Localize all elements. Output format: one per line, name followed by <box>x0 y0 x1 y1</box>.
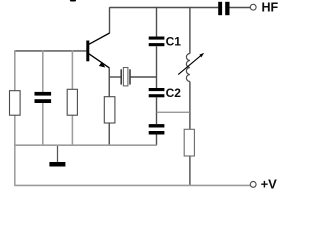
wire +V rail <box>14 184 250 186</box>
wire emitter vertical <box>108 68 110 97</box>
transistor Q1 base bar <box>86 41 89 62</box>
transistor Q1 emitter lead <box>89 54 109 68</box>
wire bypass cap top stub <box>42 51 44 93</box>
crystal X1 left plate <box>120 69 122 84</box>
resistor R2 <box>67 89 77 115</box>
wire R2 top stub <box>71 51 73 90</box>
wire ground stub <box>57 145 59 162</box>
resistor R1 <box>10 91 21 116</box>
wire R4 to +V rail <box>189 156 191 186</box>
wire output cap to HF terminal <box>229 7 250 9</box>
wire R1 top stub <box>14 51 16 91</box>
wire crystal to C-branch <box>131 76 157 78</box>
svg-text:C1: C1 <box>166 34 182 48</box>
wire junction C-branch to inductor branch <box>157 111 190 113</box>
crystal X1 body <box>123 68 128 86</box>
resistor R4 <box>184 129 194 156</box>
wire R3 to bus <box>108 123 110 145</box>
wire R2 bottom stub <box>71 115 73 145</box>
wire base line <box>14 50 86 52</box>
svg-text:HF: HF <box>262 0 279 14</box>
inductor L1 adjust arrow <box>178 54 203 75</box>
transistor Q1 collector lead <box>89 33 110 44</box>
inductor L1 coil <box>186 54 189 82</box>
terminal HF <box>250 4 256 10</box>
capacitor bypass plates <box>35 92 52 96</box>
text remnant at top edge <box>70 0 76 2</box>
wire bias bus <box>14 144 156 146</box>
capacitor C2 plates <box>149 88 165 91</box>
capacitor C1 plates <box>149 37 165 40</box>
wire C2 to C3 <box>156 97 158 124</box>
wire emitter to crystal <box>109 76 120 78</box>
wire R1 bottom to rail <box>14 115 16 185</box>
wire C1 branch top <box>156 7 158 37</box>
wire inductor to R4 <box>189 82 191 130</box>
crystal X1 right plate <box>129 69 131 84</box>
resistor R3 <box>104 97 115 123</box>
wire C3 to bus <box>156 135 158 146</box>
wire bypass cap bottom stub <box>42 103 44 145</box>
terminal +V <box>250 182 256 188</box>
svg-text:+V: +V <box>261 177 278 192</box>
transistor Q1 emitter arrow <box>99 62 105 68</box>
wire C1 to C2 <box>156 46 158 88</box>
svg-text:C2: C2 <box>166 86 182 100</box>
capacitor output coupling plates <box>218 2 222 15</box>
wire collector riser <box>109 7 111 33</box>
ground <box>49 162 65 167</box>
capacitor C3 plates <box>149 124 165 127</box>
wire top rail collector to output cap <box>110 7 219 9</box>
wire inductor branch top <box>189 7 191 54</box>
